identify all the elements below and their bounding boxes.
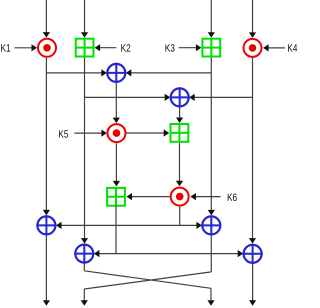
wire input line 2 top xyxy=(81,0,88,38)
adder A3 (boxplus) xyxy=(171,124,189,142)
label K2 xyxy=(121,44,130,51)
wire xor X4 down to crossover xyxy=(210,236,212,272)
wire K1 arrow xyxy=(15,44,38,51)
wire adder A4 down to u line xyxy=(115,206,117,254)
label K6 xyxy=(228,194,237,202)
wire branch line4 to xor2 right xyxy=(189,94,252,101)
wire line 1 vertical to xor A xyxy=(43,58,50,216)
adder A4 (boxplus) xyxy=(107,188,125,206)
wire line 3 vertical to xor B xyxy=(208,58,215,216)
wire branch line2 to xor2 left xyxy=(85,94,171,101)
wire mul K6 left to adder A4 xyxy=(127,193,170,200)
wire K5 arrow xyxy=(74,130,107,137)
wire xor X5 down to crossover xyxy=(83,264,85,271)
wire K3 arrow xyxy=(179,44,202,51)
wire output 3 down with arrow xyxy=(207,288,214,306)
wire mul K5 down to adder A4 xyxy=(113,143,120,186)
wire mul K6 down to t line xyxy=(179,207,181,226)
multiplier U2 (odot) for K4 xyxy=(244,39,262,57)
wire input line 3 top xyxy=(208,0,215,38)
wire branch line3 to xor1 right xyxy=(126,69,212,76)
wire line 2 vertical to xor C xyxy=(81,58,88,244)
wire crossover diagonal left-to-right xyxy=(84,271,211,289)
wire t line horizontal to xor A and xor B xyxy=(56,222,202,229)
wire branch line1 to xor1 left xyxy=(46,69,106,76)
label K4 xyxy=(288,44,297,51)
adder A1 (boxplus) for K2 xyxy=(76,39,94,57)
xor X5 (out3) xyxy=(74,244,94,264)
multiplier U4 (odot) for K6 xyxy=(171,188,189,206)
multiplier U3 (odot) for K5 xyxy=(108,124,126,142)
wire K6 arrow xyxy=(190,193,220,200)
wire crossover diagonal right-to-left xyxy=(84,272,211,289)
wire input line 4 top xyxy=(249,0,256,38)
wire mul K5 right to adder A3 xyxy=(127,129,170,136)
wire adder A3 down to mul K6 xyxy=(176,143,183,186)
wire u line horizontal to xor C and xor D xyxy=(94,250,243,257)
wire output 1 down with arrow xyxy=(43,236,50,306)
xor X2 xyxy=(170,87,190,107)
wire input line 1 top xyxy=(43,0,50,38)
wire output 2 down with arrow xyxy=(81,289,88,306)
wire K2 arrow xyxy=(95,44,117,51)
xor X4 (out2) xyxy=(201,215,221,235)
xor X6 (out4) xyxy=(243,244,263,264)
wire xor2 down to adder A3 xyxy=(176,108,183,124)
wire xor1 down to mul K5 xyxy=(113,83,120,123)
multiplier U1 (odot) xyxy=(38,39,56,57)
wire line 4 vertical to xor D xyxy=(249,58,256,244)
adder A2 (boxplus) for K3 xyxy=(202,39,220,57)
xor X3 (out1) xyxy=(36,215,56,235)
xor X1 xyxy=(106,63,126,83)
label K5 xyxy=(59,130,68,137)
label K3 xyxy=(165,44,174,52)
wire K4 arrow xyxy=(263,44,285,51)
label K1 xyxy=(1,44,10,51)
wire output 4 down with arrow xyxy=(249,264,256,306)
